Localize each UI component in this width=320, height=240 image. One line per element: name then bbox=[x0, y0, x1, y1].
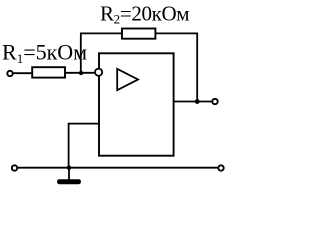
feedback wire down bbox=[196, 33, 198, 102]
wire node A up bbox=[80, 33, 82, 73]
op-amp U1 body bbox=[99, 53, 174, 155]
non-inverting input wire bbox=[69, 123, 99, 125]
output terminal X3 bbox=[212, 99, 217, 104]
ground stub bbox=[68, 168, 70, 180]
wire R2 to feedback corner bbox=[155, 32, 197, 34]
output wire bbox=[174, 101, 212, 103]
bottom-left terminal X2 bbox=[12, 165, 17, 170]
ground node junction dot bbox=[67, 166, 71, 170]
bottom-right terminal X4 bbox=[218, 165, 223, 170]
node A junction dot bbox=[79, 71, 83, 75]
wire to R2 bbox=[80, 32, 122, 34]
input terminal X1 bbox=[7, 71, 12, 76]
inverting input inversion circle bbox=[95, 69, 102, 76]
wire input to R1 bbox=[14, 72, 33, 74]
resistor R2 bbox=[122, 29, 155, 39]
output node junction dot bbox=[195, 99, 200, 104]
ground symbol bar bbox=[57, 179, 81, 184]
svg-text:R1=5кОм: R1=5кОм bbox=[2, 40, 87, 67]
resistor R1 bbox=[32, 67, 65, 77]
op-amp triangle symbol bbox=[117, 69, 138, 90]
wire non-inverting down to ground bbox=[68, 123, 70, 168]
svg-text:R2=20кОм: R2=20кОм bbox=[100, 2, 189, 27]
wire R1 to inverting input bbox=[65, 72, 95, 74]
bottom common wire bbox=[18, 167, 218, 169]
